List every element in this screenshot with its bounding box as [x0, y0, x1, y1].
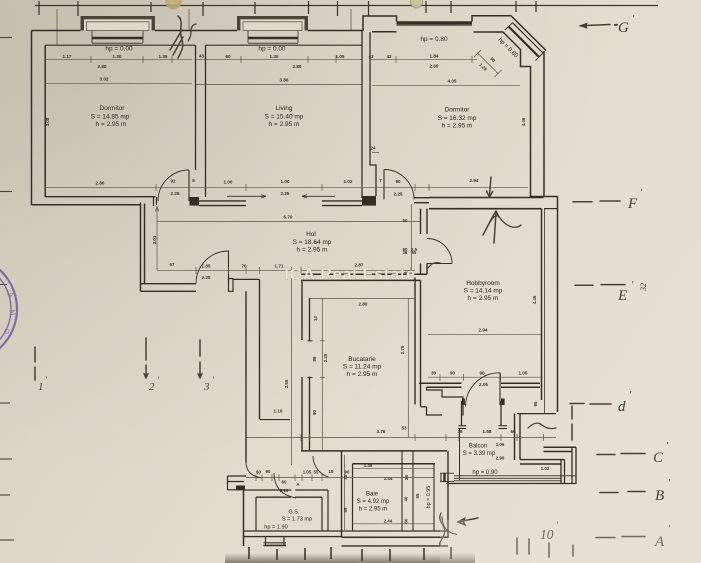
- hobbyroom interior dim line 2.94: [428, 333, 541, 335]
- room text Living: [265, 105, 304, 128]
- E' dashes: [575, 284, 625, 287]
- sliding door arrows living: [227, 195, 335, 198]
- door D1 arc: [158, 170, 189, 201]
- hol bottom dim line y270: [157, 267, 415, 274]
- wall band living bottom left segment: [199, 201, 246, 206]
- GS inner left wall: [255, 497, 257, 531]
- GS area left stub walls: [228, 476, 247, 490]
- correction curl: [490, 216, 521, 228]
- top dimension line: [35, 1, 658, 16]
- entry steps left: [427, 387, 464, 415]
- room text Hobbyroom: [464, 280, 503, 302]
- GS bottom band: [244, 531, 342, 537]
- kitchen west wall: [302, 280, 313, 450]
- GS door arc: [274, 473, 296, 498]
- kitchen top wall band: [301, 274, 427, 280]
- hobbyroom bottom dim line: [428, 374, 543, 381]
- balcon small labels: [496, 442, 550, 471]
- hobbyroom west wall lower: [421, 264, 428, 275]
- window W3 (Dormitor right, in-wall band): [397, 22, 473, 26]
- GS window protrusion: [264, 537, 287, 545]
- stamp (purple, partial circle at left): [0, 256, 17, 362]
- step line to corridor top: [233, 278, 260, 280]
- south wall band below baie: [342, 545, 449, 547]
- row1 labels: [63, 54, 457, 84]
- baie interior dim lines: [345, 455, 435, 530]
- entry door jamb blocks: [462, 399, 465, 406]
- partition block living|dorm2 bottom: [362, 196, 376, 206]
- paper blemish dot top: [411, 0, 423, 8]
- room text Bucatarie: [343, 356, 382, 378]
- labels hobby bottom dim: [431, 371, 528, 387]
- GS block dark: [236, 486, 245, 490]
- vertical dim line hol SE: [410, 204, 412, 270]
- kitchen east wall: [415, 278, 421, 407]
- partition Dormitor1|Living: [196, 45, 206, 197]
- kitchen right vertical dim: [407, 298, 409, 437]
- baie outer left wall: [341, 451, 343, 537]
- door D5 leaf (entry): [499, 373, 501, 406]
- extension line x57: [56, 9, 58, 45]
- squiggle top-left of living window: [170, 16, 183, 58]
- door D5 arc: [466, 373, 500, 407]
- balcony door jambs: [459, 426, 508, 429]
- dim chain y477: [246, 475, 434, 482]
- corridor dim line vertical: [291, 279, 293, 466]
- door D4 leaf (Hol to Hobbyroom): [427, 263, 452, 265]
- corridor end door arc: [246, 463, 261, 478]
- corner window (diagonal): [505, 23, 543, 61]
- top-right room outer wall with corner cut: [363, 16, 546, 197]
- corridor wall right of kitchen: [421, 406, 427, 408]
- squiggle over balcony right: [528, 423, 556, 428]
- GS right wall: [322, 490, 328, 531]
- corridor bottom jog line 1.10: [260, 419, 291, 421]
- wall stub right of balcony corridor: [515, 414, 565, 464]
- baie top wall band: [301, 451, 447, 464]
- dimension row1: [45, 50, 502, 77]
- 1' dashes: [34, 347, 36, 380]
- balcony railing hatch: [446, 476, 576, 484]
- baie dim labels: [343, 463, 420, 524]
- labels on y270 line: [202, 263, 409, 281]
- dim line y437: [246, 434, 556, 441]
- hol west wall: [141, 203, 145, 292]
- extension line x351: [350, 9, 352, 31]
- C' dashes: [597, 454, 645, 455]
- baie hall door arc bottom: [442, 517, 457, 535]
- hobbyroom west wall upper: [421, 209, 428, 234]
- GS outer left wall: [243, 490, 245, 546]
- F' dashes: [573, 200, 620, 203]
- door D3 arc: [196, 251, 229, 284]
- 2' mark: [144, 338, 148, 378]
- tiny labels 36 55 kitchen NE: [379, 178, 417, 255]
- G' arrow: [580, 25, 610, 26]
- labels 50/90 hol SE: [403, 218, 418, 252]
- B' dashes: [600, 492, 645, 493]
- hobbyroom top wall band: [429, 198, 544, 209]
- A' dashes: [596, 537, 645, 538]
- bottom edge shadow: [225, 553, 475, 563]
- partition Living|Dormitor2: [362, 31, 376, 198]
- right wall step at y196: [530, 197, 558, 209]
- top wall inner line: [45, 44, 362, 46]
- wall line y414: [517, 413, 556, 415]
- arrow into baie right wall: [458, 518, 478, 525]
- labels dim y437: [377, 426, 516, 435]
- squiggle near kitchen NE: [428, 263, 440, 268]
- door D2 leaf (Dormitor2 to Hol): [383, 170, 385, 200]
- corridor west wall pair: [246, 279, 260, 462]
- corner block right of D3: [229, 279, 234, 292]
- 3' mark: [198, 340, 202, 378]
- dim chain line y187 across: [156, 184, 528, 191]
- room text Dormitor 1: [91, 105, 130, 128]
- door arc into baie hall: [313, 456, 329, 477]
- baie inner left wall: [352, 464, 354, 531]
- dim labels along y187: [170, 178, 478, 197]
- hobbyroom bottom wall left segment: [419, 383, 462, 387]
- correction arrow down near 2.94: [487, 177, 493, 197]
- dimension row2: [45, 83, 520, 85]
- 10' ticks: [517, 538, 549, 557]
- correction arrow up below wall: [493, 211, 499, 243]
- wall segment right of D2: [414, 198, 429, 203]
- extension line x189: [188, 9, 190, 31]
- wall band dormitor1 bottom: [32, 197, 156, 205]
- door D1 jamb: [154, 197, 157, 206]
- room text Baie: [357, 492, 390, 513]
- baie inner partitions: [402, 451, 434, 531]
- left margin ticks: [0, 38, 14, 541]
- bottom margin ticks: [249, 547, 451, 561]
- right exterior wall lower: [542, 197, 558, 414]
- room text Hol: [293, 231, 332, 254]
- baie bottom wall band: [342, 531, 449, 537]
- baie right outer wall: [447, 451, 449, 538]
- hol bottom wall band: [141, 284, 197, 292]
- balcony right posts: [561, 447, 576, 484]
- GS top wall band: [244, 490, 329, 497]
- dormitor1 interior width dim line: [45, 186, 158, 188]
- exterior left wall: [32, 31, 46, 206]
- balcony right rail top: [544, 447, 577, 451]
- balcon region texts: [463, 444, 499, 477]
- d' dash-dot: [570, 403, 611, 406]
- room text Dormitor 2: [438, 107, 477, 130]
- door D2 arc: [384, 170, 414, 200]
- door D1 leaf (Dormitor1 to Hol): [188, 170, 190, 201]
- balcony corridor walls: [462, 401, 502, 426]
- door D4 arc: [427, 239, 452, 264]
- Hol interior dim line 6.70: [155, 207, 420, 271]
- room text GS: [264, 510, 312, 531]
- door D3 leaf (Hol lower-left): [228, 251, 230, 284]
- window W1 (Dormitor left): [81, 16, 156, 43]
- junction block at partition bottom: [190, 197, 200, 206]
- labels dim y477: [256, 469, 350, 487]
- window W2 (Living): [237, 16, 308, 43]
- exterior top wall outer line: [32, 30, 364, 32]
- kitchen top dim line 2.80: [310, 297, 416, 299]
- tape blob top (over living partition): [165, 0, 182, 10]
- wall band living bottom right segment: [322, 201, 362, 206]
- hobbyroom bottom wall right segment: [501, 383, 540, 387]
- baie window to balcony: [440, 473, 454, 481]
- balcon left edge: [459, 429, 461, 481]
- kitchen interior vertical dim: [320, 298, 325, 450]
